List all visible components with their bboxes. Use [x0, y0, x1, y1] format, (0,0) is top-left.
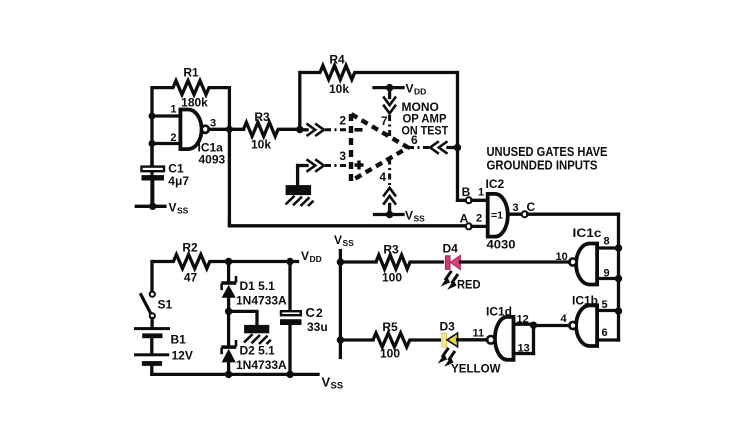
wire D2 top lead — [227, 311, 230, 345]
wire IC1d pin 12 stub — [514, 323, 534, 326]
resistor R5 100 — [373, 333, 441, 347]
net label Vdd at op-amp — [406, 82, 427, 97]
svg-text:B: B — [462, 185, 471, 199]
svg-text:4093: 4093 — [199, 153, 226, 167]
svg-text:100: 100 — [380, 347, 400, 361]
resistor R4 10k — [300, 66, 458, 80]
junction pin 8 on rail — [615, 244, 622, 251]
capacitor C1 — [142, 144, 165, 207]
wire IC1b pin 6 stub — [597, 338, 618, 341]
junction D1/D2 midpoint — [225, 308, 232, 315]
svg-text:R5: R5 — [382, 320, 398, 334]
svg-text:ON TEST: ON TEST — [402, 124, 449, 138]
svg-text:A: A — [460, 212, 469, 226]
svg-text:12: 12 — [517, 314, 529, 326]
wire R4 right vertical down to op-amp output node — [456, 73, 459, 201]
junction D2 on bottom rail — [225, 371, 232, 378]
wire node A line from IC1a output divider — [229, 224, 465, 226]
wire right vertical from R1 down to node A line — [228, 88, 231, 226]
svg-text:SS: SS — [414, 214, 426, 224]
wire IC2 output to node C — [508, 213, 521, 216]
net label Vss at op-amp — [405, 209, 425, 224]
svg-text:S1: S1 — [158, 298, 173, 312]
svg-text:100: 100 — [382, 271, 402, 285]
svg-text:10k: 10k — [329, 82, 349, 96]
LED D3 yellow — [442, 333, 458, 347]
light arrows D4 — [441, 271, 458, 290]
gate IC1a (4093 NAND) — [180, 110, 209, 150]
net label Vss top of middle rail — [334, 233, 354, 248]
wire Vss rail to R5 (LED row) — [340, 338, 373, 341]
note MONO OP AMP ON TEST — [402, 100, 449, 138]
resistor R3 10k — [244, 122, 300, 136]
svg-text:D2 5.1: D2 5.1 — [240, 344, 276, 358]
wire op-amp pin 7 to Vdd with down arrows — [383, 88, 396, 137]
junction C2 on bottom rail — [286, 371, 293, 378]
wire IC1a pin1 stub — [152, 114, 181, 117]
svg-text:V: V — [334, 233, 342, 247]
svg-text:V: V — [406, 82, 414, 96]
svg-text:4030: 4030 — [487, 238, 516, 252]
junction R5 row on Vss rail — [337, 336, 344, 343]
junction R3 / R4 branch — [296, 126, 303, 133]
battery B1 — [134, 327, 170, 374]
svg-text:2: 2 — [339, 114, 346, 128]
svg-text:V: V — [405, 209, 413, 223]
svg-text:V: V — [169, 201, 177, 215]
net label Vss under C1 — [169, 201, 189, 216]
svg-text:33u: 33u — [307, 320, 328, 334]
svg-text:5: 5 — [602, 299, 608, 311]
svg-text:C: C — [527, 200, 536, 214]
svg-text:3: 3 — [513, 202, 519, 214]
svg-text:=1: =1 — [491, 210, 503, 222]
svg-text:4μ7: 4μ7 — [168, 174, 189, 188]
svg-text:9: 9 — [604, 268, 610, 280]
svg-text:10k: 10k — [251, 138, 271, 152]
gate IC2 (4030 XOR) — [488, 194, 508, 237]
svg-text:2: 2 — [170, 132, 176, 144]
zener diode D2 1N4733A — [221, 341, 236, 374]
junction R3 row on Vss rail — [337, 258, 344, 265]
terminal node B — [466, 197, 472, 203]
wire IC1b pin 5 stub — [597, 309, 618, 312]
note UNUSED GATES HAVE GROUNDED INPUTS — [487, 144, 608, 173]
label C2 — [306, 305, 324, 320]
svg-text:IC1b: IC1b — [572, 294, 598, 308]
wire with arrows into op-amp pin 2 — [300, 124, 351, 136]
junction output with R1/A-line vertical — [226, 126, 233, 133]
svg-text:DD: DD — [414, 87, 426, 97]
wire pins 12-13 tie vertical — [532, 324, 535, 353]
gate IC1c (4093 NAND as inverter, mirrored) — [569, 244, 597, 285]
svg-text:IC1c: IC1c — [573, 226, 602, 240]
resistor R1 — [152, 81, 229, 95]
ground Vss bar under C1 — [136, 203, 165, 210]
wire D3 to IC1d output — [458, 338, 487, 341]
power Vdd bar at op-amp — [374, 84, 403, 91]
svg-text:1: 1 — [478, 187, 484, 199]
light arrows D3 — [438, 348, 455, 367]
svg-text:D3: D3 — [440, 320, 456, 334]
svg-text:7: 7 — [381, 114, 388, 128]
svg-text:4: 4 — [561, 313, 568, 325]
terminal node A — [466, 223, 472, 229]
svg-text:R1: R1 — [183, 66, 199, 80]
gate IC1b (mirrored) — [569, 305, 597, 346]
svg-text:D1 5.1: D1 5.1 — [240, 279, 276, 293]
junction pin 5 on rail — [615, 307, 622, 314]
switch S1 — [140, 292, 155, 327]
wire D1 top lead — [227, 262, 230, 282]
wire right rail down inputs of IC1c/IC1b — [617, 214, 620, 340]
LED D4 red — [445, 255, 460, 269]
resistor R3 100 — [376, 255, 444, 269]
ground symbol at zener midpoint — [229, 311, 271, 344]
net label Vdd (supply) — [301, 249, 322, 264]
junction pin1 — [149, 113, 156, 120]
wire IC1a pin2 stub — [152, 142, 181, 145]
svg-text:D4: D4 — [443, 242, 459, 256]
wire IC1b output to IC1d inputs junction — [534, 324, 570, 327]
net label Vss (supply) — [322, 375, 344, 392]
wire op-amp pin 4 to Vss with up arrows — [383, 159, 396, 215]
wire B terminal to gate — [472, 199, 488, 202]
gate IC1d (mirrored) — [487, 317, 514, 360]
svg-text:IC2: IC2 — [486, 177, 505, 191]
svg-text:1N4733A: 1N4733A — [236, 294, 287, 308]
wire S1 top lead — [150, 262, 153, 292]
wire node B from feedback rail to IC2 input 1 — [458, 199, 466, 202]
wire IC1c pin 9 stub — [597, 277, 618, 280]
wire IC1c pin 8 stub — [597, 246, 618, 249]
op-amp U1 (mono op amp on test, dashed triangle) — [351, 114, 408, 181]
power Vss bar at op-amp — [375, 211, 404, 218]
zener diode D1 1N4733A — [221, 277, 236, 311]
wire with arrows into op-amp pin 3 — [298, 159, 351, 171]
svg-text:RED: RED — [457, 278, 481, 292]
wire R4 left vertical — [298, 73, 301, 130]
svg-text:V: V — [301, 249, 309, 263]
capacitor C2 33u — [280, 262, 302, 375]
svg-text:R3: R3 — [383, 243, 399, 257]
svg-text:2: 2 — [316, 306, 323, 320]
svg-text:1: 1 — [170, 104, 176, 116]
svg-text:SS: SS — [343, 238, 355, 248]
junction pin2 — [149, 140, 156, 147]
junction C2 branch on Vdd rail — [286, 258, 293, 265]
svg-text:V: V — [322, 375, 331, 390]
wire Vdd rail from R2 to label — [229, 260, 298, 263]
wire op-amp output pin 6 with left arrows to feedback node — [408, 141, 461, 153]
wire node C to right rail — [528, 213, 619, 216]
svg-text:11: 11 — [473, 328, 485, 340]
ground symbol at op-amp pin 3 — [286, 166, 314, 207]
wire D4 to IC1c output — [460, 260, 569, 263]
wire A terminal to gate — [472, 225, 488, 228]
resistor R2 47 — [152, 255, 229, 269]
svg-text:C: C — [306, 305, 316, 320]
svg-text:3: 3 — [339, 149, 346, 163]
wire Vss rail to R3 (LED row) — [340, 260, 376, 263]
svg-text:180k: 180k — [181, 96, 208, 110]
junction 12/13 tie to IC1b output — [530, 322, 537, 329]
svg-text:12V: 12V — [172, 349, 193, 363]
svg-text:8: 8 — [604, 236, 610, 248]
svg-text:47: 47 — [184, 271, 198, 285]
svg-text:YELLOW: YELLOW — [451, 362, 501, 376]
svg-text:R4: R4 — [329, 53, 345, 67]
svg-text:6: 6 — [602, 327, 608, 339]
wire bottom Vss rail — [152, 373, 318, 376]
svg-text:R2: R2 — [182, 241, 198, 255]
svg-text:SS: SS — [331, 381, 344, 392]
svg-text:GROUNDED INPUTS: GROUNDED INPUTS — [487, 158, 598, 173]
wire middle Vss rail — [339, 251, 342, 358]
terminal node C — [522, 211, 528, 217]
junction pin 9 on rail — [615, 275, 622, 282]
svg-text:4: 4 — [379, 170, 386, 184]
svg-text:R3: R3 — [254, 110, 270, 124]
svg-text:B1: B1 — [171, 333, 187, 347]
svg-text:13: 13 — [518, 343, 530, 355]
svg-text:IC1d: IC1d — [486, 305, 512, 319]
wire left rail of IC1a feedback loop — [150, 88, 153, 207]
wire IC1a output to R3 — [209, 128, 244, 131]
svg-text:2: 2 — [476, 213, 482, 225]
wire IC1d pin 13 stub — [514, 352, 534, 355]
svg-text:SS: SS — [177, 206, 189, 216]
junction D1 branch on Vdd rail — [225, 258, 232, 265]
svg-text:DD: DD — [310, 254, 322, 264]
svg-text:1N4733A: 1N4733A — [236, 358, 287, 372]
